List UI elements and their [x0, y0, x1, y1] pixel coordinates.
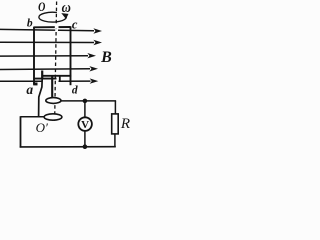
lead wire (double) from a-half down to upper slip ring [51, 76, 53, 98]
svg-text:a: a [26, 82, 33, 97]
voltmeter lead top [84, 101, 86, 118]
brush wire to lower ring [21, 116, 45, 118]
field line B5 (broken behind coil leads) [0, 78, 98, 83]
svg-text:b: b [27, 17, 33, 29]
svg-text:B: B [100, 49, 112, 66]
coil bottom side (near half, from a) [33, 78, 56, 80]
upper slip ring [46, 98, 61, 104]
resistor R [112, 114, 119, 134]
circuit left wire [20, 116, 22, 147]
field line B2 [0, 40, 102, 45]
voltmeter V [78, 117, 92, 131]
junction dot top [83, 99, 88, 104]
lead wire from d-half down to lower slip ring [41, 71, 43, 80]
circuit bottom wire [20, 146, 116, 148]
voltmeter lead bottom [84, 131, 86, 147]
svg-text:V: V [81, 119, 89, 131]
rotation axis OO' (dashed) [55, 2, 57, 124]
junction dot bottom [83, 144, 88, 149]
white halo gaps where axis crosses coil top edge and field line B1 [55, 26, 59, 29]
svg-text:O: O [38, 1, 45, 14]
coil right side cd [70, 26, 72, 85]
svg-text:R: R [120, 116, 130, 132]
rotation arrow ellipse (omega) [39, 12, 66, 22]
blob at coil corner a [33, 83, 37, 86]
coil left side ab [33, 27, 35, 85]
lower slip ring [44, 114, 62, 120]
field line B1 [0, 28, 102, 33]
coil top side bc [34, 26, 71, 28]
svg-text:ω: ω [62, 0, 71, 15]
lead stub from d-side [59, 76, 61, 82]
svg-text:d: d [72, 85, 78, 97]
circuit top wire from upper ring to resistor [61, 100, 117, 102]
coil bottom side ad (far half, from d) [42, 75, 71, 77]
field line B3 [0, 53, 96, 58]
svg-text:c: c [72, 18, 78, 32]
svg-text:O′: O′ [36, 120, 48, 135]
field line B4 [0, 66, 98, 71]
